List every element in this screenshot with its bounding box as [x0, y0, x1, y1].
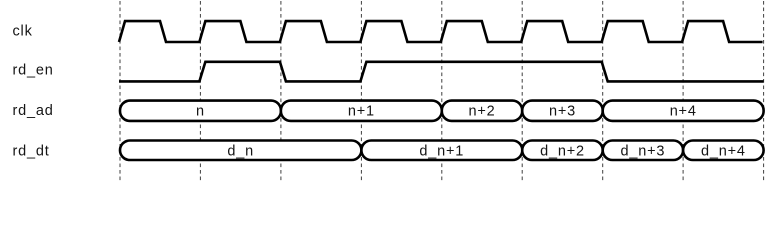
- rd_en waveform: [119, 62, 764, 82]
- bus value shape rd_dt d_n+4: [683, 141, 764, 161]
- bus value shape rd_ad n+4: [603, 101, 764, 121]
- gridline 8 (clock edge 8): [682, 1, 684, 182]
- gridline 7 (clock edge 7): [602, 1, 604, 182]
- bus value shape rd_ad n+3: [522, 101, 603, 121]
- bus value shape rd_dt d_n: [120, 141, 361, 161]
- svg-text:n+3: n+3: [549, 103, 576, 119]
- bus value shape rd_ad n+1: [281, 101, 442, 121]
- svg-text:n+4: n+4: [670, 103, 697, 119]
- gridline 2 (clock edge 2): [199, 1, 201, 182]
- gridline 4 (clock edge 4): [360, 1, 362, 182]
- gridline 1 (clock edge 1): [119, 1, 121, 182]
- bus value shape rd_dt d_n+2: [522, 141, 603, 161]
- svg-text:d_n+4: d_n+4: [701, 143, 746, 159]
- bus value shape rd_ad n: [120, 101, 281, 121]
- svg-text:rd_en: rd_en: [13, 63, 54, 79]
- gridline 3 (clock edge 3): [280, 1, 282, 182]
- svg-text:n+1: n+1: [348, 103, 375, 119]
- svg-text:rd_dt: rd_dt: [13, 144, 50, 160]
- svg-text:n: n: [196, 103, 205, 119]
- bus value shape rd_dt d_n+3: [603, 141, 683, 161]
- gridline 9 (clock edge 9): [763, 1, 765, 182]
- gridline 6 (clock edge 6): [521, 1, 523, 182]
- bus value shape rd_dt d_n+1: [361, 141, 522, 161]
- gridline 5 (clock edge 5): [441, 1, 443, 182]
- clk waveform (8 clock pulses): [119, 21, 763, 42]
- svg-text:d_n+3: d_n+3: [621, 143, 666, 159]
- svg-text:n+2: n+2: [469, 103, 496, 119]
- svg-text:d_n+1: d_n+1: [419, 143, 464, 159]
- svg-text:rd_ad: rd_ad: [13, 103, 54, 119]
- svg-text:d_n: d_n: [227, 143, 254, 159]
- svg-text:d_n+2: d_n+2: [540, 143, 585, 159]
- bus value shape rd_ad n+2: [442, 101, 522, 121]
- svg-text:clk: clk: [13, 23, 33, 39]
